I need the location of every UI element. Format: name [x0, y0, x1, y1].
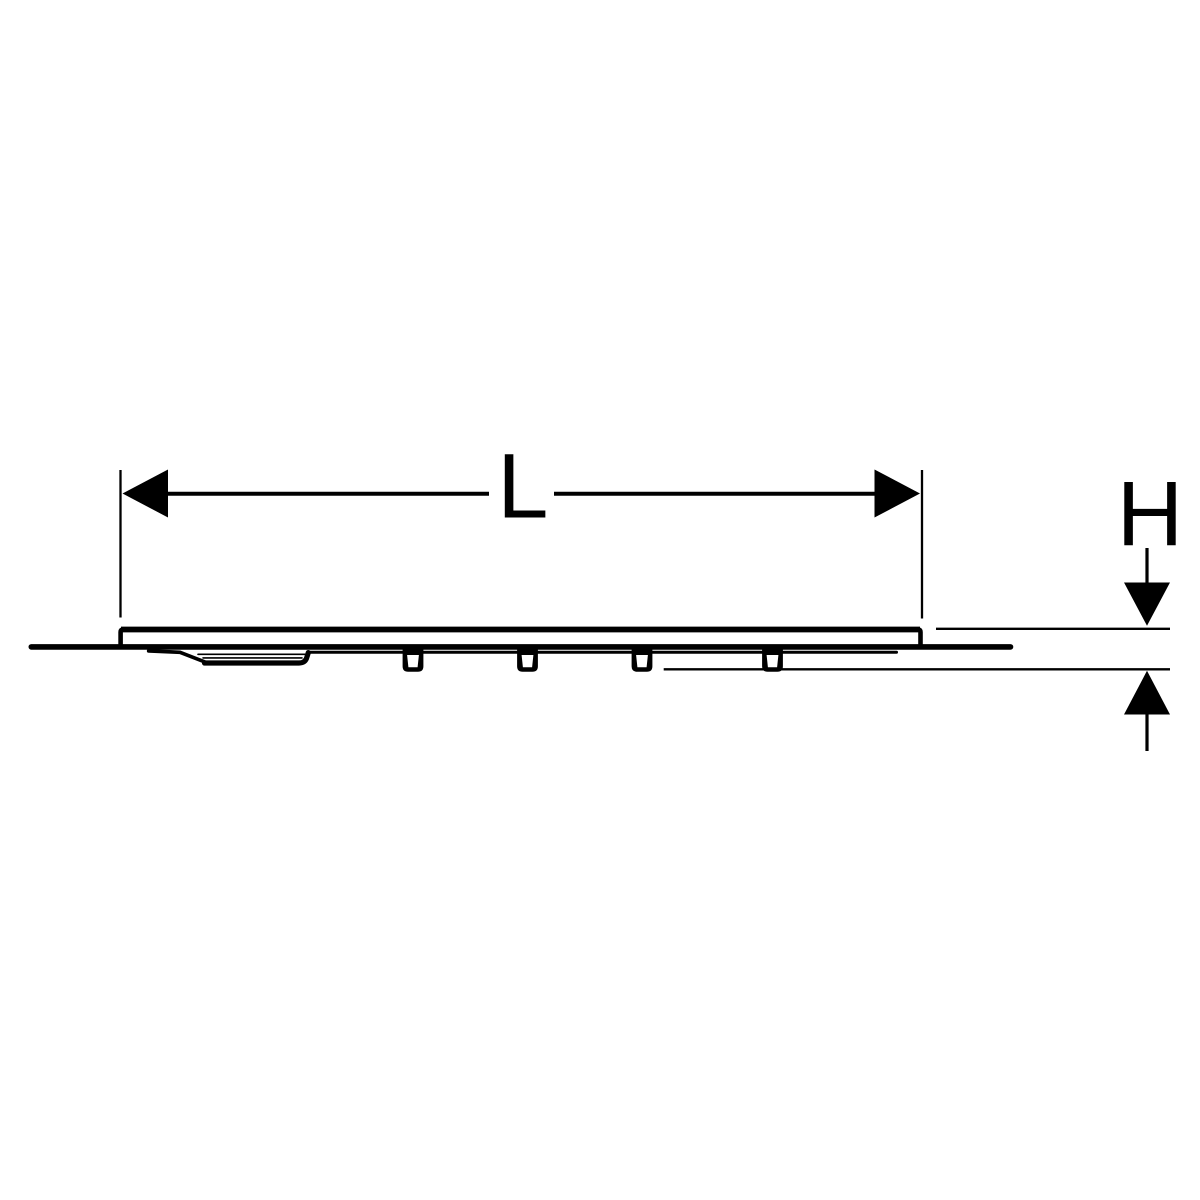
- H dimension lower tail: [1145, 715, 1148, 752]
- drain channel inner line 1: [198, 653, 305, 655]
- drain channel inner line 2: [203, 657, 302, 659]
- right arrowhead: [875, 470, 921, 518]
- H up arrowhead: [1124, 671, 1170, 715]
- foot 1: [403, 649, 424, 672]
- foot 2: [517, 649, 538, 672]
- H down arrowhead: [1124, 583, 1170, 626]
- drain channel bottom plate: [205, 653, 309, 663]
- dimension line L left segment: [166, 492, 489, 496]
- left extension line: [119, 470, 121, 618]
- upper reference line: [936, 628, 1170, 630]
- shower surface top band: [121, 627, 920, 633]
- svg-text:L: L: [497, 436, 548, 538]
- lower reference line: [664, 668, 1170, 670]
- shower surface top outline: [121, 629, 921, 648]
- dimension line L right segment: [554, 492, 876, 496]
- floor line: [31, 644, 1010, 650]
- svg-text:H: H: [1117, 464, 1183, 566]
- left arrowhead: [123, 470, 169, 518]
- foot 3: [632, 649, 653, 672]
- right extension line: [921, 470, 923, 619]
- H dimension upper tail: [1145, 548, 1148, 584]
- drain channel slope line: [149, 651, 205, 662]
- foot 4: [762, 649, 783, 672]
- bottom sheet line: [310, 651, 897, 654]
